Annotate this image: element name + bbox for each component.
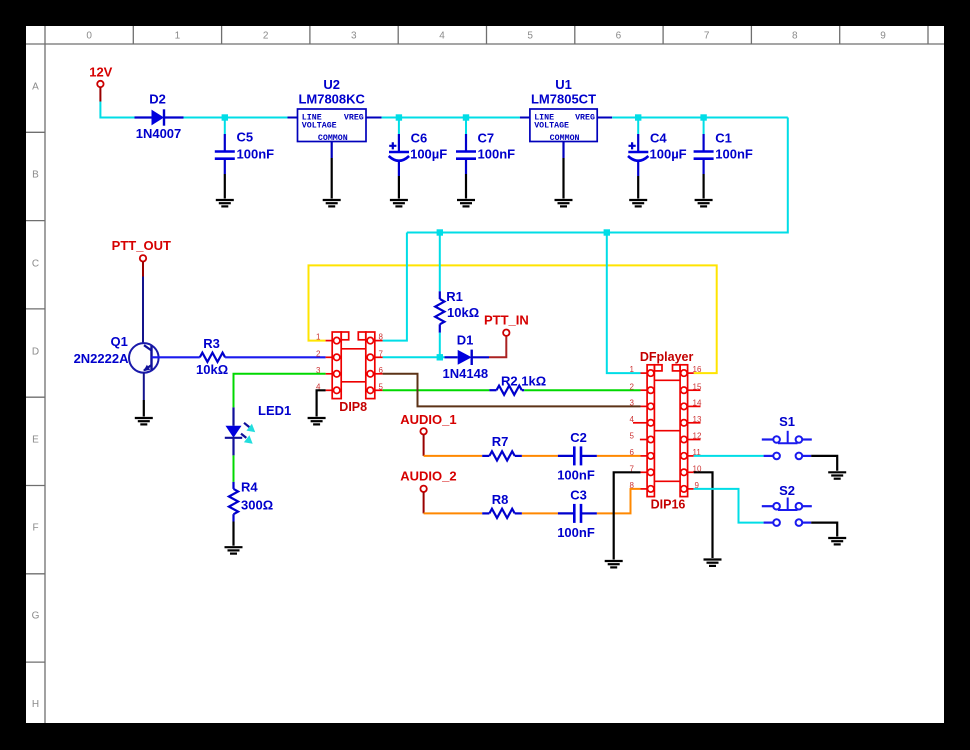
svg-text:LED1: LED1 <box>258 403 291 418</box>
resistor R8 <box>482 492 522 518</box>
capacitor C2 100nF <box>557 430 597 483</box>
svg-text:Q1: Q1 <box>111 334 128 349</box>
resistor R3 10k <box>196 336 228 377</box>
IC socket DIP16 DFplayer <box>630 350 702 511</box>
svg-text:C3: C3 <box>570 488 587 503</box>
wire C3 to DIP16 pin8 <box>597 489 641 514</box>
svg-text:4: 4 <box>630 415 635 424</box>
wire D2 to C5 node <box>184 117 288 119</box>
wire cyan DIP16 pin11 to S1 <box>694 455 764 457</box>
wire C2 to DIP16 pin6 <box>597 455 641 457</box>
svg-text:VOLTAGE: VOLTAGE <box>302 121 337 130</box>
svg-text:S2: S2 <box>779 483 795 498</box>
resistor R2 1k <box>489 374 546 395</box>
svg-text:100nF: 100nF <box>715 146 753 161</box>
svg-text:LM7805CT: LM7805CT <box>531 91 596 106</box>
node junction C6 <box>396 114 402 120</box>
node 12V <box>89 64 112 87</box>
svg-text:C4: C4 <box>650 131 667 146</box>
node PTT_OUT <box>112 238 171 261</box>
wire PTT_OUT to Q1 collector <box>142 277 144 344</box>
svg-text:C: C <box>32 259 39 270</box>
svg-text:100nF: 100nF <box>237 146 275 161</box>
svg-text:3: 3 <box>351 31 357 42</box>
svg-text:D2: D2 <box>149 92 166 107</box>
capacitor C3 100nF <box>557 488 597 540</box>
switch S1 <box>762 414 812 459</box>
wire 12V lead <box>99 87 101 101</box>
svg-text:14: 14 <box>693 399 702 408</box>
svg-text:COMMON: COMMON <box>550 134 580 143</box>
svg-text:C7: C7 <box>478 131 495 146</box>
wire S2 to ground <box>811 523 837 537</box>
svg-text:12: 12 <box>693 432 702 441</box>
wire R3 to DIP8 pin2 <box>225 356 326 358</box>
node PTT_IN <box>484 312 529 336</box>
capacitor C4 100uF <box>628 118 687 199</box>
svg-text:D1: D1 <box>457 333 474 348</box>
svg-text:2: 2 <box>316 349 321 358</box>
wire DIP8 pin4 to ground <box>317 390 326 416</box>
wire brown DIP8 pin6 to DIP16 pin3 <box>383 374 641 407</box>
wire R7 to C2 <box>522 455 558 457</box>
svg-text:2: 2 <box>263 31 269 42</box>
wire cyan to DIP16 pin1 <box>607 233 641 374</box>
node junction C7 <box>463 114 469 120</box>
IC socket DIP8 <box>316 332 383 414</box>
wire cyan pin8 riser <box>383 233 407 341</box>
regulator U1 LM7805CT <box>520 77 612 199</box>
ground Q1 emitter <box>135 418 153 424</box>
svg-text:VREG: VREG <box>344 113 364 122</box>
svg-text:7: 7 <box>379 349 384 358</box>
node junction R1 top <box>437 229 443 235</box>
svg-text:DFplayer: DFplayer <box>640 350 694 364</box>
svg-text:U2: U2 <box>323 77 340 92</box>
svg-text:R3: R3 <box>203 336 220 351</box>
wire C7 to U1 <box>466 117 520 119</box>
node junction C1 <box>700 114 706 120</box>
svg-text:AUDIO_1: AUDIO_1 <box>400 412 456 427</box>
svg-text:10kΩ: 10kΩ <box>196 362 228 377</box>
capacitor C5 100nF <box>215 118 274 199</box>
node junction DFplayer supply <box>604 229 610 235</box>
wire AUDIO_2 to R8 <box>424 512 483 514</box>
node AUDIO_2 <box>400 468 456 492</box>
svg-text:C1: C1 <box>715 131 732 146</box>
svg-text:10kΩ: 10kΩ <box>447 305 479 320</box>
svg-text:B: B <box>32 170 39 181</box>
ground DIP8 pin4 <box>308 418 326 424</box>
svg-text:8: 8 <box>792 31 798 42</box>
svg-text:R1: R1 <box>446 289 463 304</box>
wire R4 to ground <box>232 522 234 546</box>
transistor Q1 2N2222A <box>74 334 159 417</box>
wire AUDIO_1 lead <box>423 435 425 456</box>
svg-text:1: 1 <box>630 365 635 374</box>
ground C7 <box>457 200 475 206</box>
svg-text:C5: C5 <box>237 130 254 145</box>
capacitor C1 100nF <box>694 118 753 199</box>
svg-text:R4: R4 <box>241 480 258 495</box>
svg-text:100µF: 100µF <box>650 147 687 162</box>
diode D1 1N4148 <box>443 333 489 381</box>
svg-text:PTT_IN: PTT_IN <box>484 312 529 327</box>
svg-text:6: 6 <box>616 31 622 42</box>
svg-text:D: D <box>32 347 39 358</box>
wire LED to R4 <box>233 455 235 482</box>
ground DIP16 pin7 <box>605 561 623 567</box>
svg-text:R7: R7 <box>492 434 509 449</box>
svg-text:DIP8: DIP8 <box>339 400 367 414</box>
svg-text:1: 1 <box>316 333 321 342</box>
wire U2 to C6 <box>382 117 466 119</box>
svg-text:H: H <box>32 699 39 710</box>
wire S1 to ground <box>811 456 837 471</box>
ground C1 <box>695 200 713 206</box>
svg-text:100nF: 100nF <box>478 146 516 161</box>
svg-text:2N2222A: 2N2222A <box>74 351 130 366</box>
resistor R4 300 <box>229 480 273 522</box>
wire D1 to PTT_IN <box>489 336 506 357</box>
svg-text:12V: 12V <box>89 64 112 79</box>
wire R1 bottom <box>439 333 441 358</box>
wire DIP8 pin7 to D1 <box>383 356 445 358</box>
ground S2 <box>828 538 846 544</box>
svg-text:100µF: 100µF <box>410 147 447 162</box>
svg-text:G: G <box>32 611 40 622</box>
wire PTT_OUT lead <box>142 262 144 277</box>
svg-text:S1: S1 <box>779 414 795 429</box>
svg-text:15: 15 <box>693 382 702 391</box>
svg-text:7: 7 <box>704 31 710 42</box>
wire green R2 run left <box>383 389 490 391</box>
capacitor C6 100uF <box>389 118 448 199</box>
resistor R1 10k <box>435 289 479 333</box>
node junction C4 <box>635 114 641 120</box>
wire U1 output rail <box>612 117 788 119</box>
wire DIP16 pin10 to ground <box>694 472 713 558</box>
svg-text:U1: U1 <box>555 77 572 92</box>
svg-text:LM7808KC: LM7808KC <box>298 91 365 106</box>
svg-text:100nF: 100nF <box>557 525 595 540</box>
svg-text:F: F <box>32 523 38 534</box>
node junction C5 <box>222 114 228 120</box>
svg-text:13: 13 <box>693 415 702 424</box>
wire 12V to D2 <box>100 102 134 118</box>
switch S2 <box>762 483 812 526</box>
svg-text:8: 8 <box>379 333 384 342</box>
svg-text:5: 5 <box>527 31 533 42</box>
svg-text:R8: R8 <box>492 492 509 507</box>
ground C5 <box>216 200 234 206</box>
LED LED1 <box>225 403 291 455</box>
svg-text:1: 1 <box>175 31 181 42</box>
svg-text:9: 9 <box>880 31 886 42</box>
svg-text:COMMON: COMMON <box>318 134 348 143</box>
wire green R2 run right <box>524 389 640 391</box>
ground R4 <box>225 547 243 553</box>
wire Q1 base to R3 <box>152 356 200 358</box>
ground DIP16 pin10 <box>704 560 722 566</box>
svg-text:5: 5 <box>630 432 635 441</box>
svg-text:A: A <box>32 82 39 93</box>
wire 8V rail right descent <box>407 118 788 233</box>
node junction R1 bottom <box>437 354 443 360</box>
svg-text:VREG: VREG <box>575 113 595 122</box>
wire DIP16 pin7 to ground <box>614 472 641 559</box>
svg-text:3: 3 <box>630 399 635 408</box>
node AUDIO_1 <box>400 412 456 434</box>
regulator U2 LM7808KC <box>288 77 382 199</box>
svg-text:E: E <box>32 435 39 446</box>
svg-text:C2: C2 <box>570 430 587 445</box>
ground C4 <box>629 200 647 206</box>
svg-text:8: 8 <box>630 481 635 490</box>
wire yellow DIP8 pin1 loop <box>309 265 717 373</box>
svg-text:PTT_OUT: PTT_OUT <box>112 238 171 253</box>
svg-text:VOLTAGE: VOLTAGE <box>534 121 569 130</box>
resistor R7 <box>482 434 522 461</box>
svg-text:6: 6 <box>630 448 635 457</box>
ground U1 <box>555 200 573 206</box>
ground C6 <box>390 200 408 206</box>
wire green DIP8 pin3 to LED <box>234 374 326 408</box>
svg-text:16: 16 <box>693 365 702 374</box>
svg-text:DIP16: DIP16 <box>651 497 686 511</box>
ground S1 <box>828 472 846 478</box>
svg-text:1N4007: 1N4007 <box>136 126 182 141</box>
wire R8 to C3 <box>522 512 558 514</box>
diode D2 1N4007 <box>135 92 184 142</box>
svg-text:0: 0 <box>86 31 92 42</box>
svg-text:100nF: 100nF <box>557 468 595 483</box>
svg-text:AUDIO_2: AUDIO_2 <box>400 468 456 483</box>
svg-text:4: 4 <box>439 31 445 42</box>
wire AUDIO_1 to R7 <box>424 455 483 457</box>
wire R1 top <box>439 233 441 292</box>
svg-text:2: 2 <box>630 382 635 391</box>
ground U2 <box>323 200 341 206</box>
svg-text:300Ω: 300Ω <box>241 497 273 512</box>
wire AUDIO_2 lead <box>423 492 425 513</box>
wire cyan DIP16 pin9 to S2 <box>694 489 764 523</box>
capacitor C7 100nF <box>456 118 515 199</box>
svg-text:1N4148: 1N4148 <box>443 366 489 381</box>
svg-text:C6: C6 <box>411 131 428 146</box>
